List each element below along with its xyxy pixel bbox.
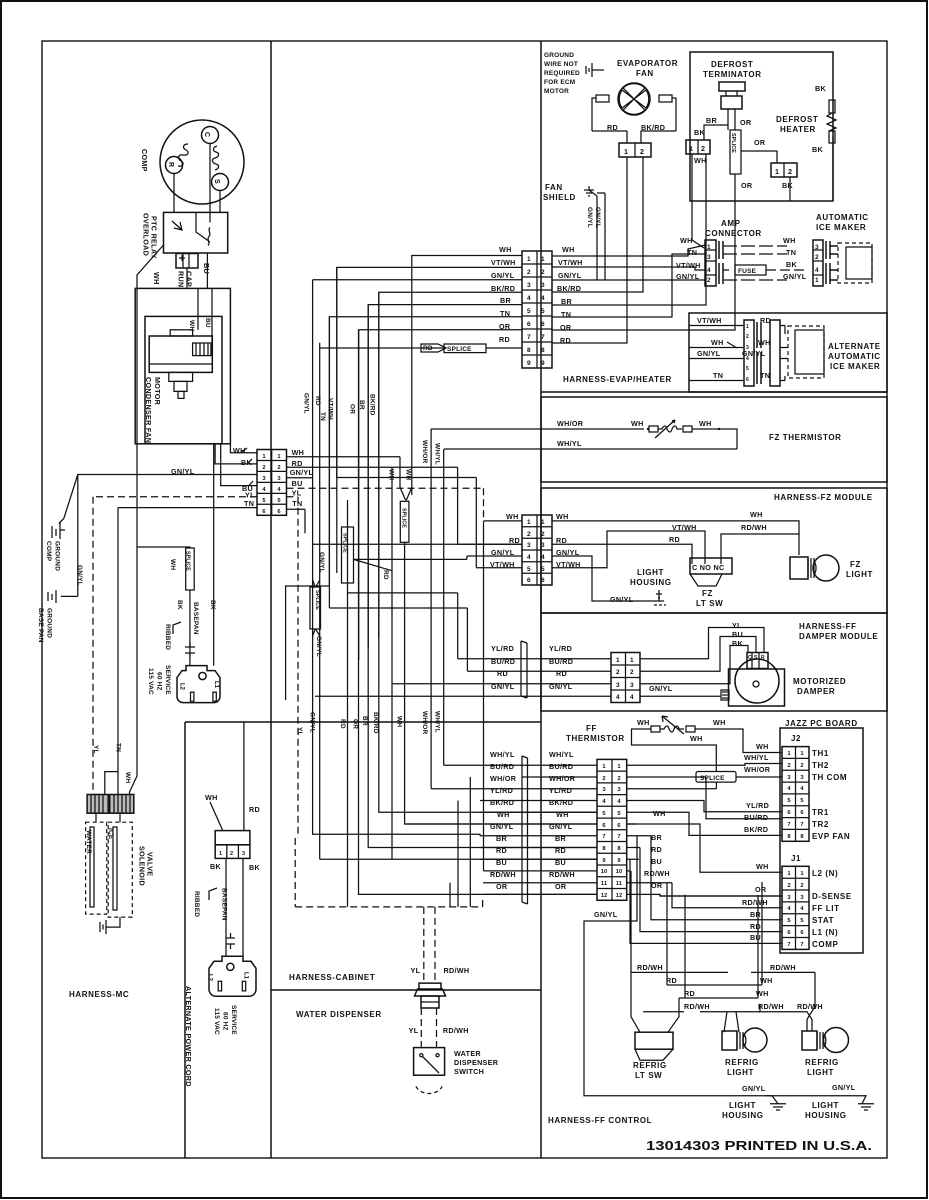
- svg-text:6: 6: [746, 377, 749, 383]
- svg-text:YL/RD: YL/RD: [549, 786, 572, 795]
- svg-text:FOR ECM: FOR ECM: [544, 79, 575, 86]
- switch FZ LT SW box: [690, 558, 732, 574]
- wire RD: [667, 883, 716, 985]
- wire B row2 BK from motor: [215, 444, 257, 464]
- svg-text:RD: RD: [760, 316, 771, 325]
- wire water dispenser divider: [271, 989, 541, 991]
- svg-text:FZ: FZ: [702, 589, 713, 598]
- svg-text:VT/WH: VT/WH: [327, 398, 334, 420]
- connector alt ice maker left bar: [744, 320, 754, 386]
- ground base pan: [48, 590, 78, 603]
- svg-text:BK/RD: BK/RD: [369, 394, 376, 416]
- svg-text:WH: WH: [499, 245, 512, 254]
- wire blockC row3 RD left: [313, 543, 522, 545]
- svg-text:RIBBED: RIBBED: [193, 891, 200, 917]
- svg-text:REFRIG: REFRIG: [805, 1058, 839, 1067]
- svg-text:WH: WH: [631, 419, 644, 428]
- FZ light bulb base: [790, 557, 808, 579]
- svg-text:TN: TN: [292, 499, 302, 508]
- svg-text:1: 1: [527, 256, 531, 263]
- svg-text:3: 3: [527, 542, 531, 549]
- svg-text:1: 1: [541, 256, 545, 263]
- svg-text:FF: FF: [586, 724, 597, 733]
- ground stub for ECM note: [586, 63, 604, 77]
- svg-text:GN/YL: GN/YL: [832, 1083, 856, 1092]
- wire bus BK/RD: [379, 292, 597, 812]
- splice GN/YL vertical box: [310, 587, 321, 629]
- svg-text:RD/WH: RD/WH: [758, 1002, 784, 1011]
- wires rows left of connector: [406, 765, 598, 894]
- dashed bundle harness-cabinet: [295, 838, 482, 907]
- terminal S: [212, 174, 229, 191]
- wire WH from overload: [130, 245, 190, 795]
- ground housing 2: [790, 1096, 874, 1110]
- svg-text:13014303 PRINTED IN U.S.A.: 13014303 PRINTED IN U.S.A.: [646, 1139, 872, 1153]
- wire BU/RD row2 long: down at x736?: [706, 777, 782, 819]
- wire FF therm right lead to J2 row1: [695, 729, 782, 753]
- svg-text:4: 4: [616, 694, 620, 701]
- svg-text:RD/WH: RD/WH: [444, 966, 470, 975]
- svg-text:L2: L2: [179, 683, 185, 691]
- svg-text:8: 8: [541, 347, 545, 354]
- svg-text:60 HZ: 60 HZ: [156, 672, 163, 691]
- wire row3 GN/YL left: [313, 279, 522, 281]
- svg-text:GN/YL: GN/YL: [76, 565, 83, 586]
- wire B rows right stubs: [287, 478, 313, 534]
- wire S down: [219, 191, 221, 213]
- wire row1 WH left: [412, 256, 522, 496]
- svg-text:JAZZ PC BOARD: JAZZ PC BOARD: [785, 719, 858, 728]
- wire B row4 BU from motor: [221, 444, 257, 486]
- defrost loop box: [690, 52, 833, 201]
- svg-text:YL: YL: [92, 745, 99, 754]
- svg-text:J1: J1: [791, 854, 801, 863]
- wire FF therm left lead to splice: [632, 729, 717, 772]
- svg-text:D-SENSE: D-SENSE: [812, 892, 852, 901]
- connector block C body: [522, 515, 552, 585]
- svg-text:1: 1: [527, 519, 531, 526]
- wire blockC row3 RD stub: [458, 467, 522, 544]
- solenoid connector hatched: [87, 795, 134, 814]
- svg-text:2: 2: [800, 763, 803, 769]
- svg-text:7: 7: [800, 822, 803, 828]
- svg-text:GN/YL: GN/YL: [302, 393, 309, 414]
- svg-text:VT/WH: VT/WH: [672, 523, 697, 532]
- terminal R: [166, 157, 183, 174]
- connector block A 9-pin body: [522, 251, 552, 368]
- refrig light switch box: [635, 1032, 673, 1049]
- svg-text:YL/RD: YL/RD: [549, 644, 572, 653]
- svg-text:C: C: [203, 132, 210, 137]
- svg-text:AUTOMATIC: AUTOMATIC: [816, 213, 869, 222]
- svg-text:GN/YL: GN/YL: [594, 207, 601, 228]
- svg-text:1: 1: [624, 147, 628, 156]
- svg-text:BU/RD: BU/RD: [744, 813, 768, 822]
- svg-text:OR: OR: [560, 323, 572, 332]
- wire B row2 RD right: [287, 343, 458, 468]
- wire fan pin2 BK/RD down to block A row4: [552, 157, 643, 292]
- svg-text:2: 2: [230, 851, 233, 857]
- splice RD flag: [421, 344, 446, 352]
- svg-text:BK/RD: BK/RD: [491, 284, 515, 293]
- svg-text:YL: YL: [296, 727, 303, 736]
- svg-text:GN/YL: GN/YL: [594, 910, 618, 919]
- wire bus WH/YL: [443, 449, 445, 765]
- svg-text:WH: WH: [388, 469, 395, 480]
- svg-text:YL: YL: [411, 966, 421, 975]
- svg-text:12: 12: [616, 893, 622, 899]
- svg-text:THERMISTOR: THERMISTOR: [566, 734, 625, 743]
- svg-text:CAP: CAP: [185, 271, 194, 287]
- svg-text:RD: RD: [509, 536, 520, 545]
- wire J1 r4 RD/WH: [672, 883, 782, 908]
- svg-text:RD/WH: RD/WH: [644, 869, 670, 878]
- svg-text:DEFROST: DEFROST: [711, 60, 753, 69]
- svg-text:11: 11: [601, 881, 608, 887]
- svg-text:BU: BU: [204, 318, 211, 328]
- wire BK to motor: [640, 646, 748, 684]
- svg-text:LIGHT: LIGHT: [807, 1068, 834, 1077]
- svg-text:TH1: TH1: [812, 749, 829, 758]
- svg-text:ALTERNATE POWER CORD: ALTERNATE POWER CORD: [184, 986, 193, 1087]
- jazz pc board outline: [780, 728, 863, 953]
- wire TN into amp pin3: [552, 254, 705, 317]
- ribbed tick: [209, 888, 217, 900]
- svg-text:1: 1: [775, 167, 779, 176]
- svg-text:GN/YL: GN/YL: [610, 595, 634, 604]
- wire bus BR: [368, 305, 597, 848]
- svg-text:3: 3: [630, 682, 634, 689]
- svg-text:GN/YL: GN/YL: [649, 684, 673, 693]
- svg-text:GN/YL: GN/YL: [309, 712, 316, 733]
- svg-text:115 VAC: 115 VAC: [147, 668, 154, 695]
- far-left labels column: [490, 750, 517, 891]
- svg-text:RD/WH: RD/WH: [741, 523, 767, 532]
- connector block B body: [257, 450, 287, 516]
- svg-text:L2 (N): L2 (N): [812, 869, 838, 878]
- evaporator fan symbol: [618, 83, 650, 115]
- svg-text:WH: WH: [188, 320, 195, 331]
- amp connector body: [705, 240, 716, 286]
- svg-text:GN/YL: GN/YL: [491, 271, 515, 280]
- svg-text:BK: BK: [209, 600, 216, 610]
- svg-text:HARNESS-FF CONTROL: HARNESS-FF CONTROL: [548, 1116, 652, 1125]
- wire bus YL/RD FF row4: [457, 801, 459, 907]
- svg-text:11: 11: [616, 881, 623, 887]
- FZ thermistor box: [541, 397, 887, 482]
- wire row5 BR left: [368, 305, 522, 648]
- svg-text:7: 7: [527, 334, 531, 341]
- wires to right light: [751, 971, 815, 973]
- svg-text:GN/YL: GN/YL: [742, 1084, 766, 1093]
- svg-text:LT SW: LT SW: [635, 1071, 662, 1080]
- wire blockC row5 VT/WH left: [337, 478, 522, 568]
- defrost terminator symbol: [719, 82, 745, 91]
- svg-text:1: 1: [746, 324, 749, 330]
- svg-text:S: S: [213, 179, 220, 184]
- svg-text:WH/YL: WH/YL: [549, 750, 574, 759]
- svg-text:YL: YL: [409, 1026, 419, 1035]
- svg-text:BK/RD: BK/RD: [641, 123, 665, 132]
- svg-text:FAN: FAN: [545, 183, 563, 192]
- svg-text:RIBBED: RIBBED: [164, 624, 171, 650]
- wire BU dashed from block B row4: [287, 488, 484, 521]
- svg-text:BU/RD: BU/RD: [490, 762, 514, 771]
- svg-text:WH: WH: [711, 338, 724, 347]
- svg-text:RD: RD: [560, 336, 571, 345]
- svg-text:WH: WH: [756, 862, 769, 871]
- wire C down: [209, 144, 211, 213]
- wires to refrig light mid: [706, 882, 762, 998]
- wire harness-cabinet top: [185, 721, 541, 723]
- svg-text:HARNESS-CABINET: HARNESS-CABINET: [289, 973, 375, 982]
- svg-text:RD: RD: [669, 535, 680, 544]
- svg-text:7: 7: [800, 942, 803, 948]
- wire B row3 GN/YL to grounds: [64, 475, 257, 597]
- svg-text:CONNECTOR: CONNECTOR: [705, 229, 762, 238]
- svg-text:WH: WH: [758, 338, 771, 347]
- coil C-S: [212, 146, 218, 170]
- svg-text:2: 2: [800, 883, 803, 889]
- svg-text:SPLICE: SPLICE: [730, 133, 736, 153]
- svg-text:1: 1: [707, 244, 711, 251]
- svg-text:SERVICE: SERVICE: [164, 665, 171, 695]
- svg-text:GN/YL: GN/YL: [315, 636, 322, 657]
- ribbed tick 1: [173, 622, 181, 634]
- svg-text:7: 7: [787, 822, 790, 828]
- svg-text:C NO NC: C NO NC: [692, 563, 724, 572]
- svg-text:WH: WH: [783, 236, 796, 245]
- ground stub damper: [721, 690, 729, 700]
- right side of alt conn: [770, 320, 780, 386]
- svg-text:WH: WH: [750, 510, 763, 519]
- wire RD/WH 2: [643, 1011, 684, 1013]
- svg-text:OR: OR: [555, 882, 567, 891]
- svg-text:VT/WH: VT/WH: [558, 258, 583, 267]
- wire YL to motor: [640, 628, 764, 659]
- connector 3pin alternate: [215, 831, 250, 845]
- fan terminal left: [596, 95, 609, 102]
- FF thermistor symbol: [651, 726, 660, 732]
- wire dashed pair to switch: [421, 1008, 436, 1047]
- mid labels column: [549, 750, 576, 891]
- svg-text:GN/YL: GN/YL: [742, 349, 766, 358]
- svg-text:RD/WH: RD/WH: [637, 963, 663, 972]
- wire VT/WH into amp pin4: [552, 267, 705, 270]
- svg-text:2: 2: [640, 147, 644, 156]
- svg-text:GROUND: GROUND: [46, 608, 53, 638]
- svg-text:FZ THERMISTOR: FZ THERMISTOR: [769, 433, 842, 442]
- svg-text:OR: OR: [755, 885, 767, 894]
- wire BK right to plug: [213, 444, 215, 666]
- svg-text:LIGHT: LIGHT: [846, 570, 873, 579]
- svg-text:6: 6: [541, 577, 545, 584]
- svg-text:HEATER: HEATER: [780, 125, 816, 134]
- svg-text:OVERLOAD: OVERLOAD: [142, 213, 151, 256]
- svg-text:TN: TN: [561, 310, 571, 319]
- wire blockB WH to funnel: [287, 456, 401, 458]
- wire splice to heater connector: [741, 151, 777, 163]
- svg-text:BK: BK: [782, 181, 793, 190]
- svg-text:4: 4: [527, 295, 531, 302]
- svg-text:WH: WH: [562, 245, 575, 254]
- svg-text:WH: WH: [756, 989, 769, 998]
- svg-text:3: 3: [707, 254, 711, 261]
- svg-text:12: 12: [601, 893, 607, 899]
- svg-text:2: 2: [616, 669, 620, 676]
- svg-text:SPLICE: SPLICE: [400, 508, 406, 528]
- connector J2 body: [782, 747, 809, 842]
- svg-text:WH: WH: [124, 772, 131, 783]
- plug alternate power: [209, 956, 256, 996]
- svg-text:TN: TN: [760, 371, 770, 380]
- svg-text:6: 6: [527, 321, 531, 328]
- svg-text:BK: BK: [812, 145, 823, 154]
- wire blockC row4 GN/YL left: [354, 556, 523, 559]
- svg-text:VT/WH: VT/WH: [491, 258, 516, 267]
- harness-FZ module box: [541, 488, 887, 613]
- svg-text:WH: WH: [292, 448, 305, 457]
- svg-text:REQUIRED: REQUIRED: [544, 70, 580, 77]
- svg-text:4: 4: [630, 694, 634, 701]
- wire BU to motor: [640, 637, 756, 672]
- svg-text:WATER: WATER: [454, 1049, 481, 1058]
- run capacitor box: [176, 254, 198, 269]
- wires into motor: [198, 288, 212, 343]
- connector interface symbol mid: [522, 756, 528, 904]
- svg-text:BR: BR: [750, 910, 761, 919]
- connector water dispenser: [415, 983, 446, 996]
- svg-text:MOTOR: MOTOR: [153, 377, 162, 406]
- svg-text:7: 7: [617, 834, 620, 840]
- svg-text:WH: WH: [169, 559, 176, 570]
- svg-text:6: 6: [541, 321, 545, 328]
- svg-text:RD: RD: [607, 123, 618, 132]
- wires into alt connector: [689, 326, 744, 381]
- svg-text:ICE: ICE: [107, 828, 114, 840]
- svg-text:STAT: STAT: [812, 916, 834, 925]
- svg-text:WH: WH: [756, 742, 769, 751]
- svg-text:GROUND: GROUND: [54, 541, 61, 571]
- wire corner TN YL into bundle: [297, 497, 299, 838]
- svg-text:BR: BR: [651, 833, 662, 842]
- svg-text:TERMINATOR: TERMINATOR: [703, 70, 762, 79]
- wire row4 BK/RD left: [379, 292, 522, 638]
- svg-text:2: 2: [277, 465, 280, 471]
- svg-text:WH: WH: [637, 718, 650, 727]
- svg-text:DEFROST: DEFROST: [776, 115, 818, 124]
- condenser fan motor outer box: [135, 288, 230, 443]
- svg-text:BU: BU: [651, 857, 662, 866]
- svg-text:FF LIT: FF LIT: [812, 904, 840, 913]
- svg-text:1: 1: [219, 851, 222, 857]
- svg-text:BK: BK: [786, 260, 797, 269]
- svg-text:1: 1: [541, 519, 545, 526]
- svg-text:RUN: RUN: [177, 271, 186, 287]
- connector J1 body: [782, 866, 809, 949]
- svg-text:WH: WH: [152, 272, 161, 285]
- wire bus OR: [359, 330, 598, 895]
- svg-text:WH: WH: [506, 512, 519, 521]
- svg-text:2: 2: [541, 269, 545, 276]
- terminal C: [202, 127, 219, 144]
- wire WH to solenoid: [105, 772, 118, 795]
- fuse: [723, 245, 787, 247]
- wire B row6 TN: [118, 508, 257, 795]
- svg-text:BK/RD: BK/RD: [549, 798, 573, 807]
- svg-text:HARNESS-MC: HARNESS-MC: [69, 990, 129, 999]
- splice vertical left column: [186, 548, 195, 590]
- motor body: [149, 336, 212, 372]
- svg-text:RD: RD: [750, 922, 761, 931]
- svg-text:WH: WH: [556, 810, 569, 819]
- wire RD/WH left branch: [631, 871, 728, 1032]
- wire bus RD2: [392, 467, 597, 859]
- alt ice maker body: [788, 326, 824, 378]
- right labels: [644, 753, 771, 890]
- svg-text:BK/RD: BK/RD: [557, 284, 581, 293]
- svg-text:VT/WH: VT/WH: [676, 261, 701, 270]
- svg-text:DAMPER: DAMPER: [797, 687, 835, 696]
- svg-text:OR: OR: [352, 719, 359, 729]
- wire OR below splice to block A row7: [552, 174, 735, 330]
- svg-text:2: 2: [630, 669, 634, 676]
- svg-text:WH/YL: WH/YL: [434, 711, 441, 733]
- wire bus RD splice1: [347, 500, 349, 907]
- svg-text:WH/YL: WH/YL: [490, 750, 515, 759]
- svg-text:TR2: TR2: [812, 820, 829, 829]
- svg-text:BASEPAN: BASEPAN: [192, 602, 199, 635]
- svg-text:TH2: TH2: [812, 761, 829, 770]
- svg-text:RD: RD: [423, 345, 433, 352]
- wire evap/heater section bottom: [541, 391, 887, 393]
- svg-text:HARNESS-EVAP/HEATER: HARNESS-EVAP/HEATER: [563, 375, 672, 384]
- wire GN/YL from FF row7 to housings: [584, 836, 772, 1096]
- wire WH from conn pin1 down to amp pin1: [692, 154, 704, 248]
- svg-text:RD: RD: [497, 669, 508, 678]
- alternate ice maker box: [689, 313, 887, 392]
- svg-text:WH: WH: [699, 419, 712, 428]
- wire J1 r7 COMP BU: [630, 859, 782, 943]
- svg-text:WH: WH: [497, 810, 510, 819]
- svg-text:WATER DISPENSER: WATER DISPENSER: [296, 1010, 382, 1019]
- svg-text:SOLENOID: SOLENOID: [138, 846, 147, 886]
- svg-text:OR: OR: [740, 118, 752, 127]
- wire RD 2: [668, 895, 706, 1033]
- svg-text:WH: WH: [760, 976, 773, 985]
- svg-text:7: 7: [541, 334, 545, 341]
- svg-text:COMP: COMP: [812, 940, 838, 949]
- svg-text:DISPENSER: DISPENSER: [454, 1058, 499, 1067]
- svg-text:VALVE: VALVE: [146, 852, 155, 876]
- wire WH row6 to J1 row1: [627, 824, 782, 872]
- svg-text:LIGHT: LIGHT: [729, 1101, 756, 1110]
- svg-text:REFRIG: REFRIG: [725, 1058, 759, 1067]
- svg-text:FZ: FZ: [850, 560, 861, 569]
- wire GN/YL verticals from shield: [597, 193, 605, 280]
- wire water disp pair dashed: [424, 907, 435, 982]
- wire BR from conn pin2 up: [704, 125, 728, 140]
- svg-text:HARNESS-FZ MODULE: HARNESS-FZ MODULE: [774, 493, 873, 502]
- wire bus RD (block A row8 to FF row9 area): [313, 280, 480, 836]
- svg-text:5: 5: [527, 308, 531, 315]
- svg-text:WH/OR: WH/OR: [490, 774, 517, 783]
- svg-text:BU: BU: [750, 933, 761, 942]
- refrig light mid bulb base: [722, 1031, 737, 1050]
- wire BU from overload: [206, 253, 208, 288]
- wire WH/OR into FZ thermistor: [431, 428, 644, 430]
- svg-text:7: 7: [602, 834, 605, 840]
